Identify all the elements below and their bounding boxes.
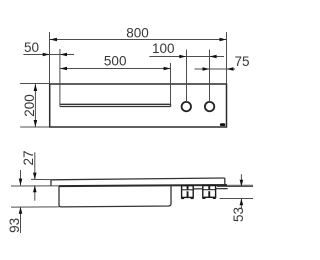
svg-text:800: 800	[126, 25, 149, 40]
svg-text:50: 50	[24, 40, 39, 55]
svg-text:200: 200	[22, 94, 37, 117]
svg-text:27: 27	[21, 150, 36, 165]
svg-text:93: 93	[7, 218, 22, 233]
svg-text:53: 53	[231, 207, 246, 222]
svg-text:500: 500	[104, 54, 127, 69]
svg-text:75: 75	[234, 54, 249, 69]
svg-text:100: 100	[152, 41, 175, 56]
